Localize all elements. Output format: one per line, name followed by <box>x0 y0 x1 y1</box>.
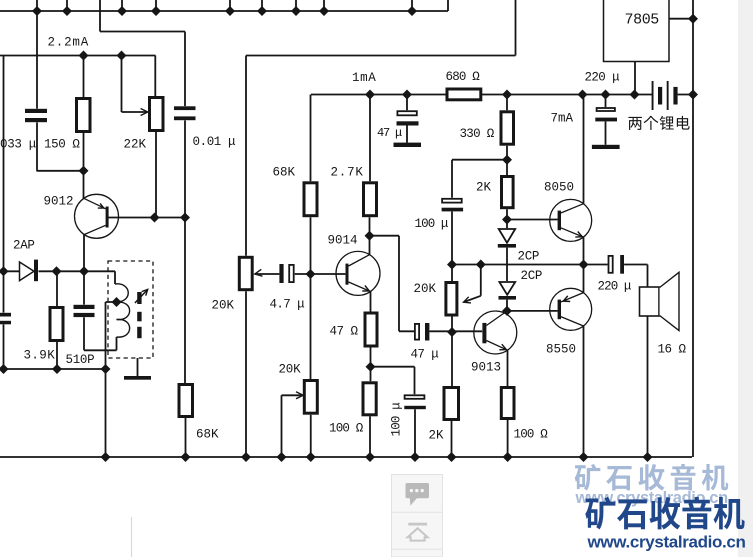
svg-text:2CP: 2CP <box>521 269 543 283</box>
svg-text:330 Ω: 330 Ω <box>460 127 495 141</box>
svg-text:510P: 510P <box>66 353 95 367</box>
svg-text:100 μ: 100 μ <box>390 402 404 437</box>
svg-text:2AP: 2AP <box>13 239 35 253</box>
svg-text:2K: 2K <box>476 181 492 195</box>
svg-text:0.01 μ: 0.01 μ <box>193 135 237 149</box>
svg-text:4.7 μ: 4.7 μ <box>270 298 306 312</box>
svg-text:8550: 8550 <box>546 343 576 357</box>
svg-text:www.crystalradio.cn: www.crystalradio.cn <box>587 533 746 552</box>
svg-text:9014: 9014 <box>328 234 358 248</box>
svg-text:3.9K: 3.9K <box>24 349 56 363</box>
svg-text:68K: 68K <box>196 428 219 442</box>
svg-text:20K: 20K <box>414 282 437 296</box>
svg-text:68K: 68K <box>273 166 296 180</box>
svg-text:9013: 9013 <box>471 361 501 375</box>
svg-text:1mA: 1mA <box>352 71 376 85</box>
svg-text:2.7K: 2.7K <box>331 166 364 180</box>
svg-text:22K: 22K <box>124 138 147 152</box>
svg-text:8050: 8050 <box>544 181 574 195</box>
svg-text:2.2mA: 2.2mA <box>48 36 90 50</box>
svg-text:9012: 9012 <box>44 195 74 209</box>
svg-text:47 μ: 47 μ <box>377 126 402 140</box>
svg-text:47 Ω: 47 Ω <box>330 325 359 339</box>
svg-text:7805: 7805 <box>625 12 660 29</box>
svg-text:220 μ: 220 μ <box>585 71 621 85</box>
svg-text:100 μ: 100 μ <box>415 217 449 231</box>
svg-text:2CP: 2CP <box>518 250 540 264</box>
svg-text:2K: 2K <box>429 429 445 443</box>
svg-text:033 μ: 033 μ <box>0 138 37 152</box>
svg-text:100 Ω: 100 Ω <box>514 428 549 442</box>
svg-text:47 μ: 47 μ <box>411 348 440 362</box>
svg-text:20K: 20K <box>212 299 235 313</box>
svg-text:16 Ω: 16 Ω <box>658 343 687 357</box>
svg-text:220 μ: 220 μ <box>598 280 632 294</box>
svg-text:7mA: 7mA <box>551 112 574 126</box>
svg-text:100 Ω: 100 Ω <box>329 422 364 436</box>
svg-text:150 Ω: 150 Ω <box>44 138 80 152</box>
svg-text:20K: 20K <box>279 363 302 377</box>
svg-text:680 Ω: 680 Ω <box>446 70 481 84</box>
